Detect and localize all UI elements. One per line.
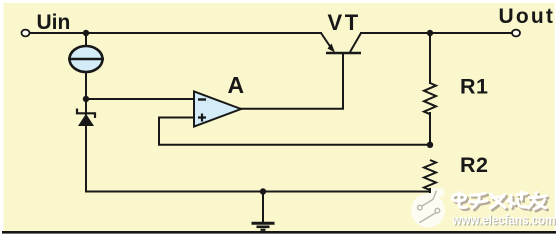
node: Uin junction (83, 30, 89, 36)
node: R1/R2 feedback junction (427, 142, 433, 148)
wire Uin node to current source (85, 33, 87, 46)
node: output / R1 junction (427, 30, 433, 36)
wire top rail right (VT collector to Uout) (361, 32, 512, 34)
op-amp A (194, 92, 241, 127)
current source I1 (68, 46, 104, 72)
svg-text:Uin: Uin (37, 11, 71, 34)
ground (252, 223, 275, 230)
transistor VT (PNP pass transistor) (321, 33, 361, 53)
svg-text:R1: R1 (460, 75, 488, 99)
resistor R1 (424, 83, 436, 114)
svg-text:A: A (228, 72, 245, 98)
wire bottom ground rail (86, 191, 430, 193)
watermark text: 电子发烧友 (stroke approximation) (454, 194, 548, 211)
wire R1 bottom lead (429, 113, 431, 145)
wire ground stub (262, 192, 264, 223)
svg-text:Uout: Uout (499, 5, 556, 28)
node: reference node (zener / inverting input) (83, 96, 89, 102)
wire feedback: non-inverting input loop to R1/R2 junction (159, 118, 430, 145)
wire node to op-amp inverting input (86, 98, 196, 100)
watermark logo (elecfans) (411, 189, 445, 228)
output terminal (Uout) (512, 30, 520, 37)
node: ground rail junction (260, 188, 266, 194)
svg-text:www.elecfans.com: www.elecfans.com (452, 212, 556, 228)
bottom border line (2, 231, 556, 234)
zener diode DZ (77, 109, 95, 127)
wire current source to node (85, 72, 87, 99)
wire op-amp output to transistor base (240, 54, 343, 109)
wire node to zener cathode (85, 99, 87, 114)
wire zener anode down to ground rail (85, 126, 87, 192)
svg-text:VT: VT (328, 10, 361, 35)
resistor R2 (424, 160, 436, 190)
wire R1 top lead (429, 33, 431, 83)
wire top rail left (Uin to VT emitter) (29, 32, 321, 34)
input terminal (Uin) (22, 30, 30, 37)
wire R2 bottom lead (429, 189, 431, 192)
svg-text:R2: R2 (460, 153, 488, 177)
